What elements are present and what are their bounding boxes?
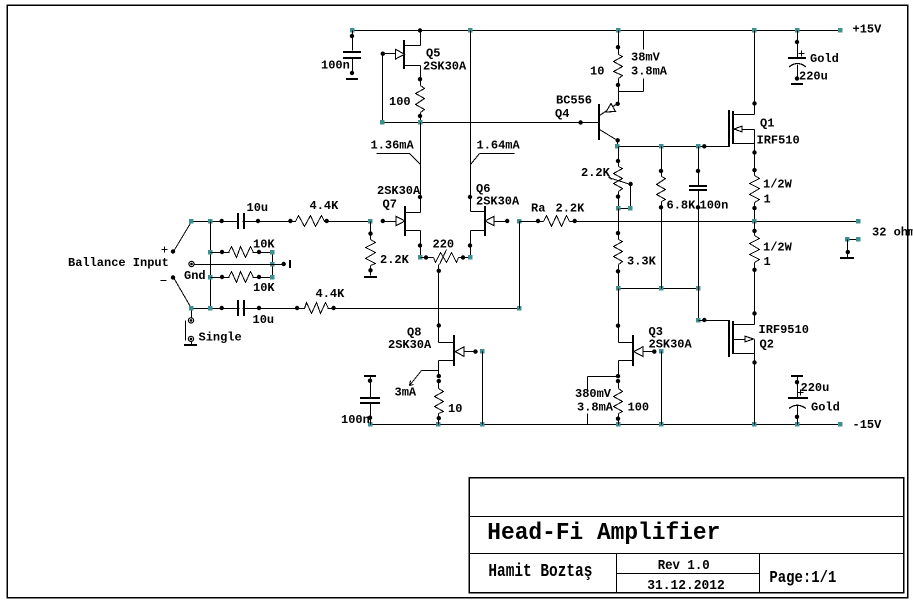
wire Q2 drain to -15V rail <box>754 363 756 425</box>
label 2.2K of Ra <box>556 202 586 216</box>
svg-text:10: 10 <box>590 65 604 79</box>
svg-text:Ballance Input: Ballance Input <box>68 256 169 270</box>
svg-text:2SK30A: 2SK30A <box>377 184 421 198</box>
node markers VAS line <box>615 144 700 148</box>
svg-text:31.12.2012: 31.12.2012 <box>647 579 725 594</box>
junction dot at Q4 base pin <box>578 120 582 124</box>
capacitor C 100n (compensation) <box>689 147 707 289</box>
svg-text:3mA: 3mA <box>395 386 417 400</box>
wire trimmer bottom through output row to 3.3K <box>618 209 620 234</box>
label 4.4K (top) <box>310 199 340 213</box>
svg-text:10u: 10u <box>247 201 269 215</box>
label 2SK30A of Q8 <box>388 338 432 352</box>
svg-text:-15V: -15V <box>853 418 883 432</box>
wire from + input to top signal row <box>174 222 192 252</box>
node markers bottom signal row <box>189 306 521 310</box>
svg-text:Gold: Gold <box>811 401 840 415</box>
label 100n (compensation) <box>700 199 729 213</box>
wire vertical from top row down to 10K rows and bottom row <box>210 222 212 309</box>
svg-text:100: 100 <box>389 95 411 109</box>
label Q1 <box>760 117 774 131</box>
node marker output end <box>856 219 860 223</box>
label 220u (bottom) <box>801 381 830 395</box>
resistor 2.2K (Q7 gate to ground) <box>366 222 376 276</box>
svg-text:4.4K: 4.4K <box>310 199 340 213</box>
wire Q3 gate down to -15V rail <box>661 352 663 425</box>
label Ra <box>531 202 545 216</box>
resistor 4.4K (bottom input) <box>305 301 329 315</box>
svg-text:220u: 220u <box>799 70 828 84</box>
node marker Q6 gate <box>517 219 521 223</box>
label Gold (top) <box>810 52 839 66</box>
svg-text:2SK30A: 2SK30A <box>476 195 520 209</box>
svg-text:Rev 1.0: Rev 1.0 <box>658 559 710 574</box>
label 4.4K (bottom) <box>316 287 346 301</box>
label Q5 <box>426 47 440 61</box>
label 2.2K (trimmer) <box>581 166 611 180</box>
label Single <box>199 331 242 345</box>
junction dot Q2 gate pin <box>702 318 706 322</box>
gap in bottom row wire for cap <box>239 302 242 314</box>
resistor Ra 2.2K <box>520 216 755 227</box>
svg-text:Ra: Ra <box>531 202 545 216</box>
svg-text:10K: 10K <box>253 281 275 295</box>
svg-text:32 ohm: 32 ohm <box>872 226 913 240</box>
label 10u (top) <box>247 201 269 215</box>
label Q4 <box>555 107 569 121</box>
capacitor C 100n (bottom left) <box>360 376 380 425</box>
Gnd pin circle <box>189 261 194 266</box>
label 2.2K (left) <box>380 253 410 267</box>
capacitor C 10u (bottom input) <box>238 300 244 316</box>
label Ballance Input <box>68 256 169 270</box>
plus terminal of balanced input <box>162 247 176 254</box>
node markers top signal row <box>189 219 372 223</box>
wire mirror line y=122 <box>383 122 600 124</box>
wire Q6 source to 220 trimmer <box>470 246 472 258</box>
svg-text:2SK30A: 2SK30A <box>388 338 432 352</box>
svg-text:10: 10 <box>448 402 462 416</box>
title text date <box>647 579 725 594</box>
junction dot Q6 gate wire <box>505 219 509 223</box>
resistor 10K (lower) <box>211 270 273 284</box>
transistor Q2 IRF9510 MOSFET <box>729 311 757 365</box>
Gnd open-end bar <box>289 260 291 268</box>
svg-text:220: 220 <box>433 238 455 252</box>
wire Gnd line <box>195 264 285 266</box>
svg-text:Head-Fi Amplifier: Head-Fi Amplifier <box>487 520 720 547</box>
svg-text:IRF510: IRF510 <box>757 134 800 148</box>
transistor Q5 2SK30A JFET <box>381 31 423 82</box>
svg-text:10K: 10K <box>253 238 275 252</box>
svg-text:Gold: Gold <box>810 52 839 66</box>
wire Q6 drain column <box>470 31 472 198</box>
node markers lower mid line <box>616 286 700 290</box>
svg-text:2SK30A: 2SK30A <box>423 60 467 74</box>
junction dot Q3 gate wire <box>652 349 656 353</box>
label Q8 <box>407 326 421 340</box>
capacitor 220u Gold (bottom right) <box>788 376 808 425</box>
wire bottom signal row (- input to feedback line) <box>192 308 520 310</box>
svg-text:1/2W: 1/2W <box>763 241 793 255</box>
svg-text:Page:1/1: Page:1/1 <box>769 568 836 587</box>
label 10u (bottom) <box>253 313 275 327</box>
wire from - input to bottom signal row <box>174 278 192 309</box>
label 3.3K <box>627 255 657 269</box>
label Q7 <box>383 198 397 212</box>
label 10K (lower) <box>253 281 275 295</box>
title block frame <box>469 478 904 593</box>
svg-text:1: 1 <box>764 255 771 269</box>
wire Q2 gate lead <box>699 320 729 322</box>
label IRF510 <box>757 134 800 148</box>
wire Q3 drain up to lower mid line <box>618 289 620 326</box>
svg-text:IRF9510: IRF9510 <box>759 323 809 337</box>
label 2SK30A of Q5 <box>423 60 467 74</box>
wire top signal row (+ input to Q7 gate) <box>192 221 371 223</box>
wire Single jack to ground <box>191 342 193 345</box>
svg-text:6.8K: 6.8K <box>667 199 697 213</box>
junction dot Q1 gate pin <box>702 144 706 148</box>
ground bar below Single jack <box>184 344 197 346</box>
wire Q4 collector line to Q1 gate <box>618 141 729 147</box>
label 100 (Q5) <box>389 95 411 109</box>
title text Rev 1.0 <box>658 559 710 574</box>
svg-text:10u: 10u <box>253 313 275 327</box>
label 1/2W (upper) <box>763 178 793 192</box>
title text Hamit Boztas <box>488 561 592 582</box>
measurement bracket 380mV/3.8mA <box>588 377 619 425</box>
wire Q1 drain to +15V rail <box>754 31 756 104</box>
svg-text:100: 100 <box>628 401 650 415</box>
node markers mirror line <box>380 120 422 124</box>
svg-text:Q4: Q4 <box>555 107 569 121</box>
measurement bracket 38mV/3.8mA <box>619 31 644 92</box>
svg-text:3.8mA: 3.8mA <box>577 401 614 415</box>
svg-text:2.2K: 2.2K <box>581 166 611 180</box>
junction dots top signal row <box>220 219 385 223</box>
label BC556 <box>556 94 592 108</box>
label 2SK30A of Q7 <box>377 184 421 198</box>
label 220u (top) <box>799 70 828 84</box>
svg-text:2SK30A: 2SK30A <box>649 338 693 352</box>
wire Q6 gate down to feedback row <box>519 222 521 309</box>
label 100n (bottom left) <box>341 413 370 427</box>
wire Q5 gate down to mirror line <box>382 54 384 123</box>
svg-text:1: 1 <box>764 193 771 207</box>
title text Page <box>769 568 836 587</box>
Single jack body line <box>185 321 187 341</box>
svg-text:38mV: 38mV <box>631 51 661 65</box>
trimmer resistor 2.2K (Q4 load) <box>608 147 633 211</box>
svg-text:BC556: BC556 <box>556 94 592 108</box>
junction dots bottom signal row <box>220 306 336 310</box>
resistor 6.8K <box>657 147 666 289</box>
junction dots 10K lower <box>220 275 261 279</box>
title text Head-Fi Amplifier <box>487 520 720 547</box>
gap in top row wire for cap <box>239 215 242 227</box>
Single input jack circles <box>188 318 193 342</box>
callout 1.64mA <box>471 139 521 165</box>
capacitor C 10u (top input) <box>238 213 244 229</box>
svg-text:1/2W: 1/2W <box>763 178 793 192</box>
svg-text:380mV: 380mV <box>575 387 612 401</box>
node markers -15V rail <box>368 422 842 426</box>
label 3.8mA (top) <box>631 65 668 79</box>
label 1 (lower) <box>764 255 771 269</box>
svg-text:Single: Single <box>199 331 242 345</box>
wire -15V rail <box>371 424 841 426</box>
wire from bottom row node to Single jack <box>191 311 193 319</box>
ground bar below 2.2K <box>364 276 377 278</box>
resistor 100 (Q5 source) <box>416 80 425 123</box>
transistor Q7 2SK30A JFET <box>384 195 423 248</box>
node markers x=272 vertical <box>270 250 274 279</box>
resistor 1 1/2W (upper output) <box>750 153 760 222</box>
svg-text:100n: 100n <box>321 59 350 73</box>
resistor 100 (Q3 source) <box>614 379 623 425</box>
junction dots 10K upper <box>220 250 261 254</box>
svg-text:Q2: Q2 <box>760 338 774 352</box>
resistor 10K (upper) <box>211 245 273 259</box>
resistor 1 1/2W (lower output) <box>750 222 760 314</box>
svg-text:Gnd: Gnd <box>184 269 206 283</box>
resistor 10 (top current sense) <box>614 31 623 104</box>
svg-text:3.8mA: 3.8mA <box>631 65 668 79</box>
junction dot Q8 gate wire <box>473 349 477 353</box>
node marker Q2 gate node <box>696 318 700 322</box>
junction dot on +15V rail at Q5 drain <box>418 28 422 32</box>
wire 100n bottom to Q2 gate row <box>698 289 700 321</box>
label Q6 <box>476 182 490 196</box>
svg-text:Hamit Boztaş: Hamit Boztaş <box>488 561 592 582</box>
label 2SK30A of Q3 <box>649 338 693 352</box>
label 380mV <box>575 387 612 401</box>
label 100n (top left) <box>321 59 350 73</box>
capacitor 220u Gold (top right) <box>788 31 806 85</box>
label 1 (upper) <box>764 193 771 207</box>
label Gold (bottom) <box>811 401 840 415</box>
label +15V <box>853 23 883 37</box>
ground bar of headphone stub <box>840 257 854 259</box>
capacitor C 100n (top left) <box>343 31 361 80</box>
svg-text:100n: 100n <box>700 199 729 213</box>
svg-text:2.2K: 2.2K <box>380 253 410 267</box>
label 32 ohm <box>872 226 913 240</box>
transistor Q1 IRF510 MOSFET <box>729 101 757 154</box>
svg-text:Q5: Q5 <box>426 47 440 61</box>
svg-text:+15V: +15V <box>853 23 883 37</box>
node marker Q8 gate <box>480 349 484 353</box>
label Q3 <box>649 325 663 339</box>
label 100 (Q3) <box>628 401 650 415</box>
callout 1.36mA <box>371 139 421 165</box>
svg-text:Q7: Q7 <box>383 198 397 212</box>
resistor 10 (Q8 source) <box>435 379 444 425</box>
label 3.8mA (bottom) <box>577 401 614 415</box>
node markers on x=210 vertical <box>208 250 212 310</box>
label 10K (upper) <box>253 238 275 252</box>
capacitor 100n bottom-left plates <box>360 398 380 403</box>
label Gnd <box>184 269 206 283</box>
transistor Q3 2SK30A JFET <box>616 324 655 379</box>
resistor 4.4K (top input) <box>296 214 325 228</box>
resistor 3.3K <box>614 231 623 289</box>
svg-text:220u: 220u <box>801 381 830 395</box>
node marker Q3 gate <box>659 349 663 353</box>
svg-text:2.2K: 2.2K <box>556 202 586 216</box>
junction dot on Gnd line <box>282 262 286 266</box>
svg-text:4.4K: 4.4K <box>316 287 346 301</box>
svg-text:1.36mA: 1.36mA <box>371 139 415 153</box>
headphone return stub <box>845 237 860 258</box>
node markers +15V rail <box>350 28 842 32</box>
transistor Q8 2SK30A JFET <box>437 323 476 378</box>
label 10 (top) <box>590 65 604 79</box>
wire lower mid line y=288 <box>619 288 699 290</box>
trimmer resistor 220 (source degeneration) <box>418 250 472 273</box>
wire output row to 32 ohm terminal <box>755 221 859 223</box>
label IRF9510 <box>759 323 809 337</box>
transistor Q6 2SK30A JFET <box>468 195 508 248</box>
label 220 <box>433 238 455 252</box>
capacitor C 100n compensation plates <box>689 186 707 190</box>
wire +15V rail <box>353 30 841 32</box>
svg-text:3.3K: 3.3K <box>627 255 657 269</box>
label 6.8K <box>667 199 697 213</box>
wire Q7 drain column <box>420 123 422 198</box>
label Q2 <box>760 338 774 352</box>
label 38mV <box>631 51 661 65</box>
svg-text:Q1: Q1 <box>760 117 774 131</box>
label -15V <box>853 418 883 432</box>
minus terminal of balanced input <box>161 275 176 280</box>
transistor Q4 BC556 PNP <box>599 102 620 143</box>
label 2SK30A of Q6 <box>476 195 520 209</box>
wire vertical joining 10K right ends and Gnd line <box>272 253 274 278</box>
wire Q8 gate down to -15V rail <box>482 352 484 425</box>
wire 220 wiper down to Q8 drain <box>438 271 440 326</box>
label 1/2W (lower) <box>763 241 793 255</box>
node marker output junction <box>752 219 756 223</box>
svg-text:100n: 100n <box>341 413 370 427</box>
wire Q7 source to 220 trimmer <box>420 246 422 258</box>
callout 3mA <box>395 371 439 400</box>
svg-text:1.64mA: 1.64mA <box>477 139 521 153</box>
label 10 (Q8) <box>448 402 462 416</box>
